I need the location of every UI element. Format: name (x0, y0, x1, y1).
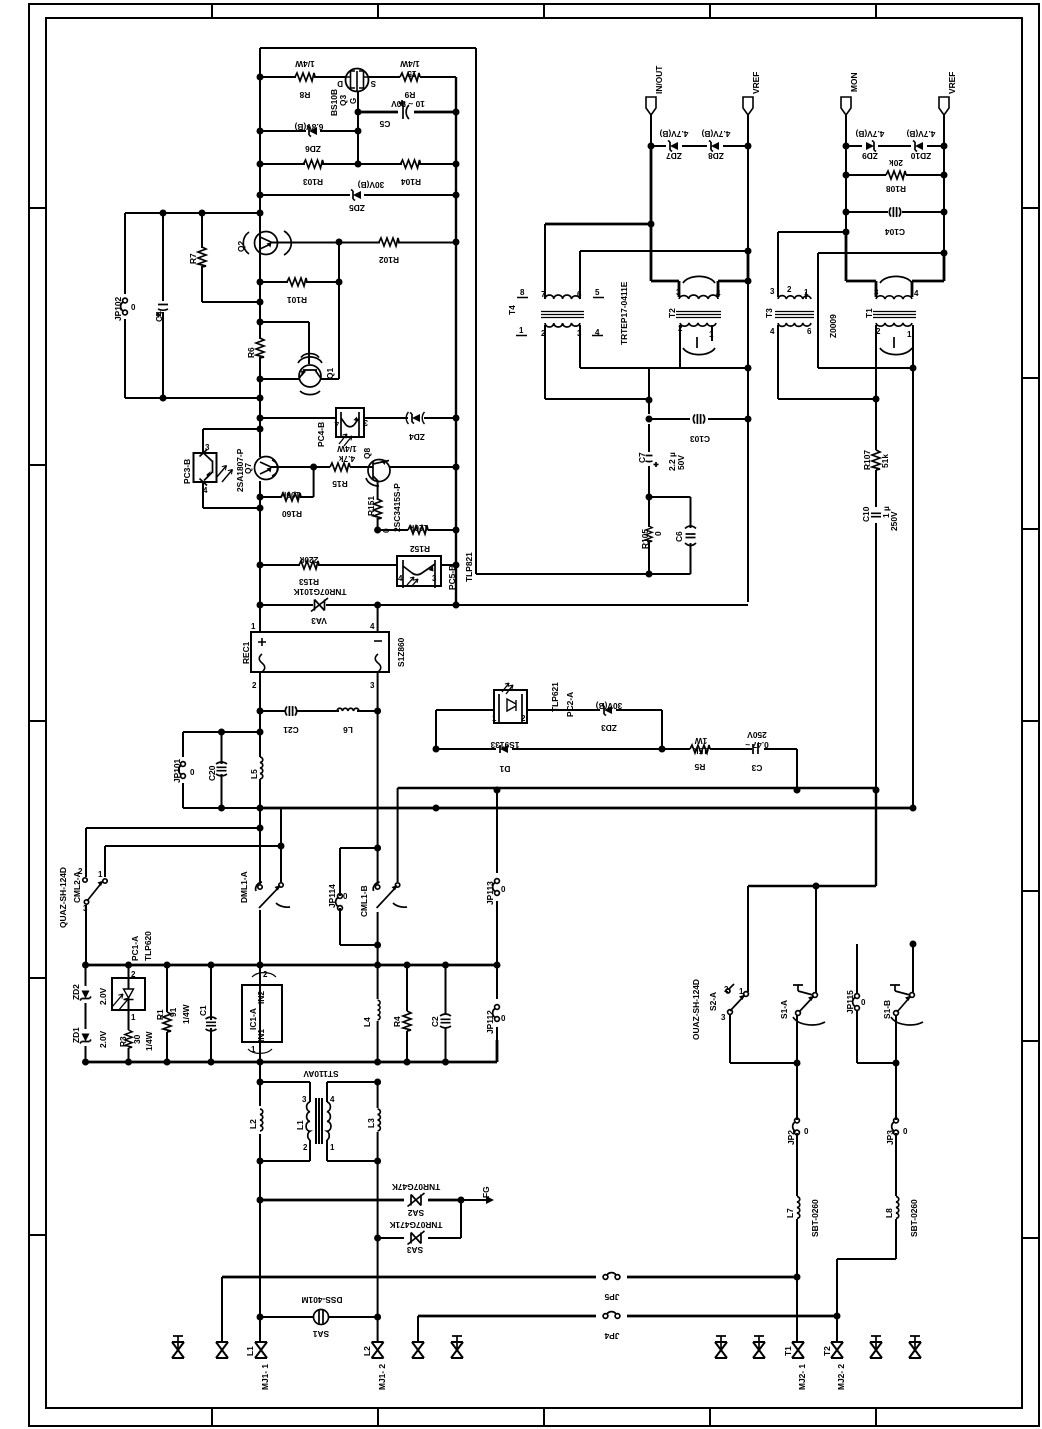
svg-text:QUAZ-SH-124D: QUAZ-SH-124D (58, 867, 68, 928)
svg-text:Q1: Q1 (325, 367, 335, 379)
svg-text:TLP621: TLP621 (550, 682, 560, 712)
svg-text:0.47 ~: 0.47 ~ (745, 740, 769, 750)
svg-text:2: 2 (303, 1143, 308, 1152)
svg-text:4.7V(B): 4.7V(B) (701, 129, 730, 139)
svg-text:0: 0 (861, 998, 866, 1007)
svg-text:30: 30 (132, 1034, 142, 1044)
svg-text:R8: R8 (299, 90, 310, 100)
svg-text:1: 1 (492, 714, 497, 723)
svg-text:PC1-A: PC1-A (130, 936, 140, 961)
svg-text:0: 0 (381, 528, 391, 533)
svg-text:C2: C2 (430, 1016, 440, 1027)
svg-text:L4: L4 (362, 1017, 372, 1027)
svg-text:Q8: Q8 (362, 447, 372, 459)
svg-text:C3: C3 (751, 763, 762, 773)
svg-text:3: 3 (676, 288, 681, 297)
svg-text:R108: R108 (886, 184, 906, 194)
svg-text:SBT-0260: SBT-0260 (810, 1199, 820, 1237)
svg-text:ZD6: ZD6 (305, 144, 321, 154)
svg-text:6: 6 (577, 290, 582, 299)
svg-text:R7: R7 (188, 253, 198, 264)
svg-text:2SC3415S-P: 2SC3415S-P (392, 483, 402, 532)
svg-text:R151: R151 (366, 496, 376, 516)
svg-text:MJ1- 2: MJ1- 2 (377, 1364, 387, 1390)
svg-text:JP112: JP112 (485, 1010, 495, 1034)
svg-text:4: 4 (203, 486, 208, 495)
svg-text:3: 3 (874, 288, 879, 297)
svg-text:IC1-A: IC1-A (248, 1008, 258, 1030)
svg-text:1: 1 (709, 330, 714, 339)
svg-text:3: 3 (770, 287, 775, 296)
svg-text:4.7k: 4.7k (339, 454, 356, 464)
svg-text:IN2: IN2 (256, 991, 266, 1004)
svg-text:MJ2- 2: MJ2- 2 (836, 1364, 846, 1390)
svg-text:3: 3 (577, 329, 582, 338)
svg-text:L7: L7 (785, 1208, 795, 1218)
svg-text:ZD9: ZD9 (862, 151, 878, 161)
svg-text:R1: R1 (155, 1009, 165, 1020)
svg-text:0: 0 (131, 303, 136, 312)
svg-text:2: 2 (521, 714, 526, 723)
svg-text:ZD3: ZD3 (601, 723, 617, 733)
svg-text:TLP620: TLP620 (143, 931, 153, 961)
svg-text:PC2-A: PC2-A (565, 692, 575, 717)
svg-text:FG: FG (481, 1186, 491, 1198)
svg-text:15k: 15k (694, 746, 708, 756)
svg-text:S2-A: S2-A (708, 992, 718, 1011)
svg-text:TLP821: TLP821 (464, 552, 474, 582)
svg-text:L8: L8 (884, 1208, 894, 1218)
svg-text:1/4W: 1/4W (144, 1031, 154, 1051)
svg-text:R6: R6 (246, 347, 256, 358)
svg-text:4: 4 (595, 328, 600, 337)
svg-text:8: 8 (520, 288, 525, 297)
svg-text:1: 1 (739, 987, 744, 996)
svg-text:51k: 51k (880, 454, 890, 468)
svg-text:C6: C6 (674, 531, 684, 542)
svg-text:VREF: VREF (751, 72, 761, 94)
svg-text:C7: C7 (637, 452, 647, 463)
svg-text:G: G (349, 98, 358, 104)
svg-text:3: 3 (302, 1095, 307, 1104)
svg-text:L3: L3 (366, 1118, 376, 1128)
svg-text:ZD5: ZD5 (349, 203, 365, 213)
svg-text:PC3-B: PC3-B (182, 459, 192, 484)
svg-text:220k: 220k (299, 555, 318, 565)
svg-text:ZD4: ZD4 (409, 432, 425, 442)
svg-text:JP5: JP5 (604, 1292, 619, 1302)
svg-text:3: 3 (363, 418, 368, 427)
svg-text:C4: C4 (154, 311, 164, 322)
svg-text:S1-B: S1-B (882, 1000, 892, 1019)
svg-text:SBT-0260: SBT-0260 (909, 1199, 919, 1237)
svg-text:SA1: SA1 (313, 1329, 330, 1339)
svg-text:JP113: JP113 (485, 881, 495, 905)
svg-text:Q7: Q7 (243, 462, 253, 474)
svg-text:IN/OUT: IN/OUT (654, 65, 664, 94)
svg-text:2: 2 (724, 985, 729, 994)
svg-text:1: 1 (251, 1045, 256, 1054)
svg-text:2: 2 (876, 327, 881, 336)
svg-text:MON: MON (849, 72, 859, 92)
svg-text:2: 2 (678, 324, 683, 333)
svg-text:1: 1 (519, 326, 524, 335)
svg-text:6.8V(B): 6.8V(B) (294, 122, 323, 132)
svg-text:6: 6 (807, 327, 812, 336)
svg-text:R102: R102 (379, 255, 399, 265)
svg-text:TNR07G471K: TNR07G471K (389, 1220, 442, 1230)
svg-text:R103: R103 (303, 177, 323, 187)
svg-text:0: 0 (653, 531, 663, 536)
svg-text:4: 4 (370, 622, 375, 631)
svg-text:PC5-B: PC5-B (447, 565, 457, 590)
svg-text:4.7V(B): 4.7V(B) (659, 129, 688, 139)
svg-text:120k: 120k (409, 523, 428, 533)
svg-text:30V(B): 30V(B) (358, 180, 385, 190)
svg-text:250V: 250V (889, 511, 899, 531)
svg-text:4: 4 (334, 419, 339, 428)
svg-text:ZD1: ZD1 (71, 1027, 81, 1043)
svg-text:2: 2 (131, 970, 136, 979)
svg-text:7: 7 (541, 290, 546, 299)
svg-text:SA3: SA3 (407, 1245, 424, 1255)
svg-text:C5: C5 (379, 119, 390, 129)
svg-text:30V(B): 30V(B) (596, 701, 623, 711)
svg-text:1: 1 (251, 622, 256, 631)
svg-text:3: 3 (721, 1013, 726, 1022)
svg-text:R9: R9 (404, 90, 415, 100)
svg-text:L1: L1 (295, 1120, 305, 1130)
svg-text:4.7V(B): 4.7V(B) (906, 129, 935, 139)
svg-text:R107: R107 (862, 450, 872, 470)
svg-text:JP2: JP2 (786, 1130, 796, 1145)
svg-text:0: 0 (903, 1127, 908, 1136)
svg-text:ZD10: ZD10 (910, 151, 931, 161)
svg-text:2: 2 (263, 970, 268, 979)
svg-text:1: 1 (907, 330, 912, 339)
svg-text:1: 1 (330, 1143, 335, 1152)
svg-text:R105: R105 (640, 529, 650, 549)
svg-text:ST110AV: ST110AV (303, 1069, 339, 1079)
svg-text:OUAZ-SH-124D: OUAZ-SH-124D (691, 979, 701, 1040)
svg-text:JP115: JP115 (845, 990, 855, 1014)
svg-text:ZD7: ZD7 (666, 151, 682, 161)
svg-text:S1Z860: S1Z860 (396, 637, 406, 667)
svg-text:1: 1 (98, 870, 103, 879)
svg-text:R152: R152 (410, 544, 430, 554)
svg-text:0: 0 (501, 1014, 506, 1023)
svg-text:T2: T2 (667, 308, 677, 318)
svg-text:DML1-A: DML1-A (239, 871, 249, 903)
svg-text:C103: C103 (690, 434, 710, 444)
svg-text:4: 4 (398, 574, 403, 583)
svg-text:0: 0 (190, 768, 195, 777)
svg-text:4: 4 (330, 1095, 335, 1104)
svg-text:CML1-B: CML1-B (359, 885, 369, 917)
svg-text:2.0V: 2.0V (98, 1030, 108, 1048)
svg-text:ZD8: ZD8 (708, 151, 724, 161)
svg-text:MJ2- 1: MJ2- 1 (797, 1364, 807, 1390)
svg-text:0: 0 (343, 892, 348, 901)
svg-text:T4: T4 (507, 305, 517, 315)
svg-text:100k: 100k (281, 490, 300, 500)
svg-text:L6: L6 (343, 725, 353, 735)
svg-text:C10: C10 (861, 506, 871, 522)
svg-text:S: S (370, 79, 376, 88)
svg-text:50V: 50V (676, 455, 686, 470)
svg-text:JP102: JP102 (113, 296, 123, 321)
svg-text:L2: L2 (362, 1346, 372, 1356)
svg-text:2: 2 (787, 285, 792, 294)
svg-text:JP101: JP101 (172, 758, 182, 783)
svg-text:S1-A: S1-A (779, 1000, 789, 1019)
svg-text:Z0009: Z0009 (828, 314, 838, 338)
svg-text:T1: T1 (783, 1346, 793, 1356)
svg-text:1S9133: 1S9133 (490, 740, 519, 750)
svg-text:3: 3 (432, 574, 437, 583)
svg-text:2: 2 (252, 681, 257, 690)
svg-text:D: D (337, 79, 343, 88)
svg-text:TNR07G47K: TNR07G47K (392, 1182, 440, 1192)
svg-text:T2: T2 (822, 1346, 832, 1356)
svg-text:T3: T3 (764, 308, 774, 318)
svg-text:5: 5 (595, 288, 600, 297)
svg-text:JP3: JP3 (885, 1130, 895, 1145)
svg-text:L5: L5 (249, 769, 259, 779)
svg-text:1: 1 (131, 1013, 136, 1022)
svg-text:2: 2 (541, 329, 546, 338)
svg-text:4: 4 (716, 289, 721, 298)
svg-text:Q2: Q2 (236, 240, 246, 252)
svg-text:L2: L2 (248, 1119, 258, 1129)
svg-text:4: 4 (914, 289, 919, 298)
svg-text:DSS-401M: DSS-401M (302, 1295, 343, 1305)
svg-text:PC4-B: PC4-B (316, 422, 326, 447)
svg-text:R5: R5 (694, 762, 705, 772)
svg-text:VREF: VREF (947, 72, 957, 94)
svg-text:JP114: JP114 (327, 884, 337, 908)
svg-text:250V: 250V (747, 730, 767, 740)
svg-text:VA3: VA3 (311, 616, 327, 626)
svg-text:TRTEP17-0411E: TRTEP17-0411E (619, 281, 629, 345)
svg-text:C104: C104 (885, 227, 905, 237)
svg-text:3: 3 (83, 904, 88, 913)
svg-text:4.7V(B): 4.7V(B) (855, 129, 884, 139)
svg-text:1/4W: 1/4W (181, 1004, 191, 1024)
svg-text:TNR07G101K: TNR07G101K (293, 587, 346, 597)
svg-text:2: 2 (78, 867, 83, 876)
svg-text:R160: R160 (282, 509, 302, 519)
svg-text:1/4W: 1/4W (337, 444, 357, 454)
svg-text:JP4: JP4 (604, 1331, 619, 1341)
svg-text:C21: C21 (283, 725, 299, 735)
svg-text:3: 3 (370, 681, 375, 690)
svg-text:R101: R101 (287, 295, 307, 305)
svg-text:L1: L1 (245, 1346, 255, 1356)
svg-text:R104: R104 (401, 177, 421, 187)
svg-text:3: 3 (205, 443, 210, 452)
svg-text:SA2: SA2 (408, 1208, 425, 1218)
svg-text:1: 1 (804, 288, 809, 297)
svg-text:MJ1- 1: MJ1- 1 (260, 1364, 270, 1390)
svg-text:15: 15 (407, 69, 417, 79)
svg-text:R3: R3 (118, 1036, 128, 1047)
svg-text:T1: T1 (864, 308, 874, 318)
svg-text:CML2-A: CML2-A (72, 871, 82, 903)
svg-text:0: 0 (501, 885, 506, 894)
svg-text:R4: R4 (392, 1016, 402, 1027)
svg-text:1/4W: 1/4W (295, 59, 315, 69)
svg-text:REC1: REC1 (241, 641, 251, 664)
svg-text:10 ~ 50V: 10 ~ 50V (391, 99, 425, 109)
svg-text:91: 91 (168, 1007, 178, 1017)
svg-text:0: 0 (804, 1127, 809, 1136)
svg-text:R153: R153 (299, 577, 319, 587)
svg-text:Q3: Q3 (338, 94, 348, 106)
svg-text:D1: D1 (499, 764, 510, 774)
svg-text:IN1: IN1 (256, 1029, 266, 1042)
svg-text:ZD2: ZD2 (71, 984, 81, 1000)
svg-text:C1: C1 (198, 1005, 208, 1016)
svg-text:4: 4 (770, 327, 775, 336)
svg-text:1/4W: 1/4W (400, 59, 420, 69)
svg-text:20k: 20k (889, 158, 903, 168)
svg-text:1W: 1W (695, 736, 708, 746)
svg-text:R15: R15 (332, 479, 348, 489)
svg-text:2.0V: 2.0V (98, 987, 108, 1005)
svg-text:C20: C20 (207, 765, 217, 781)
